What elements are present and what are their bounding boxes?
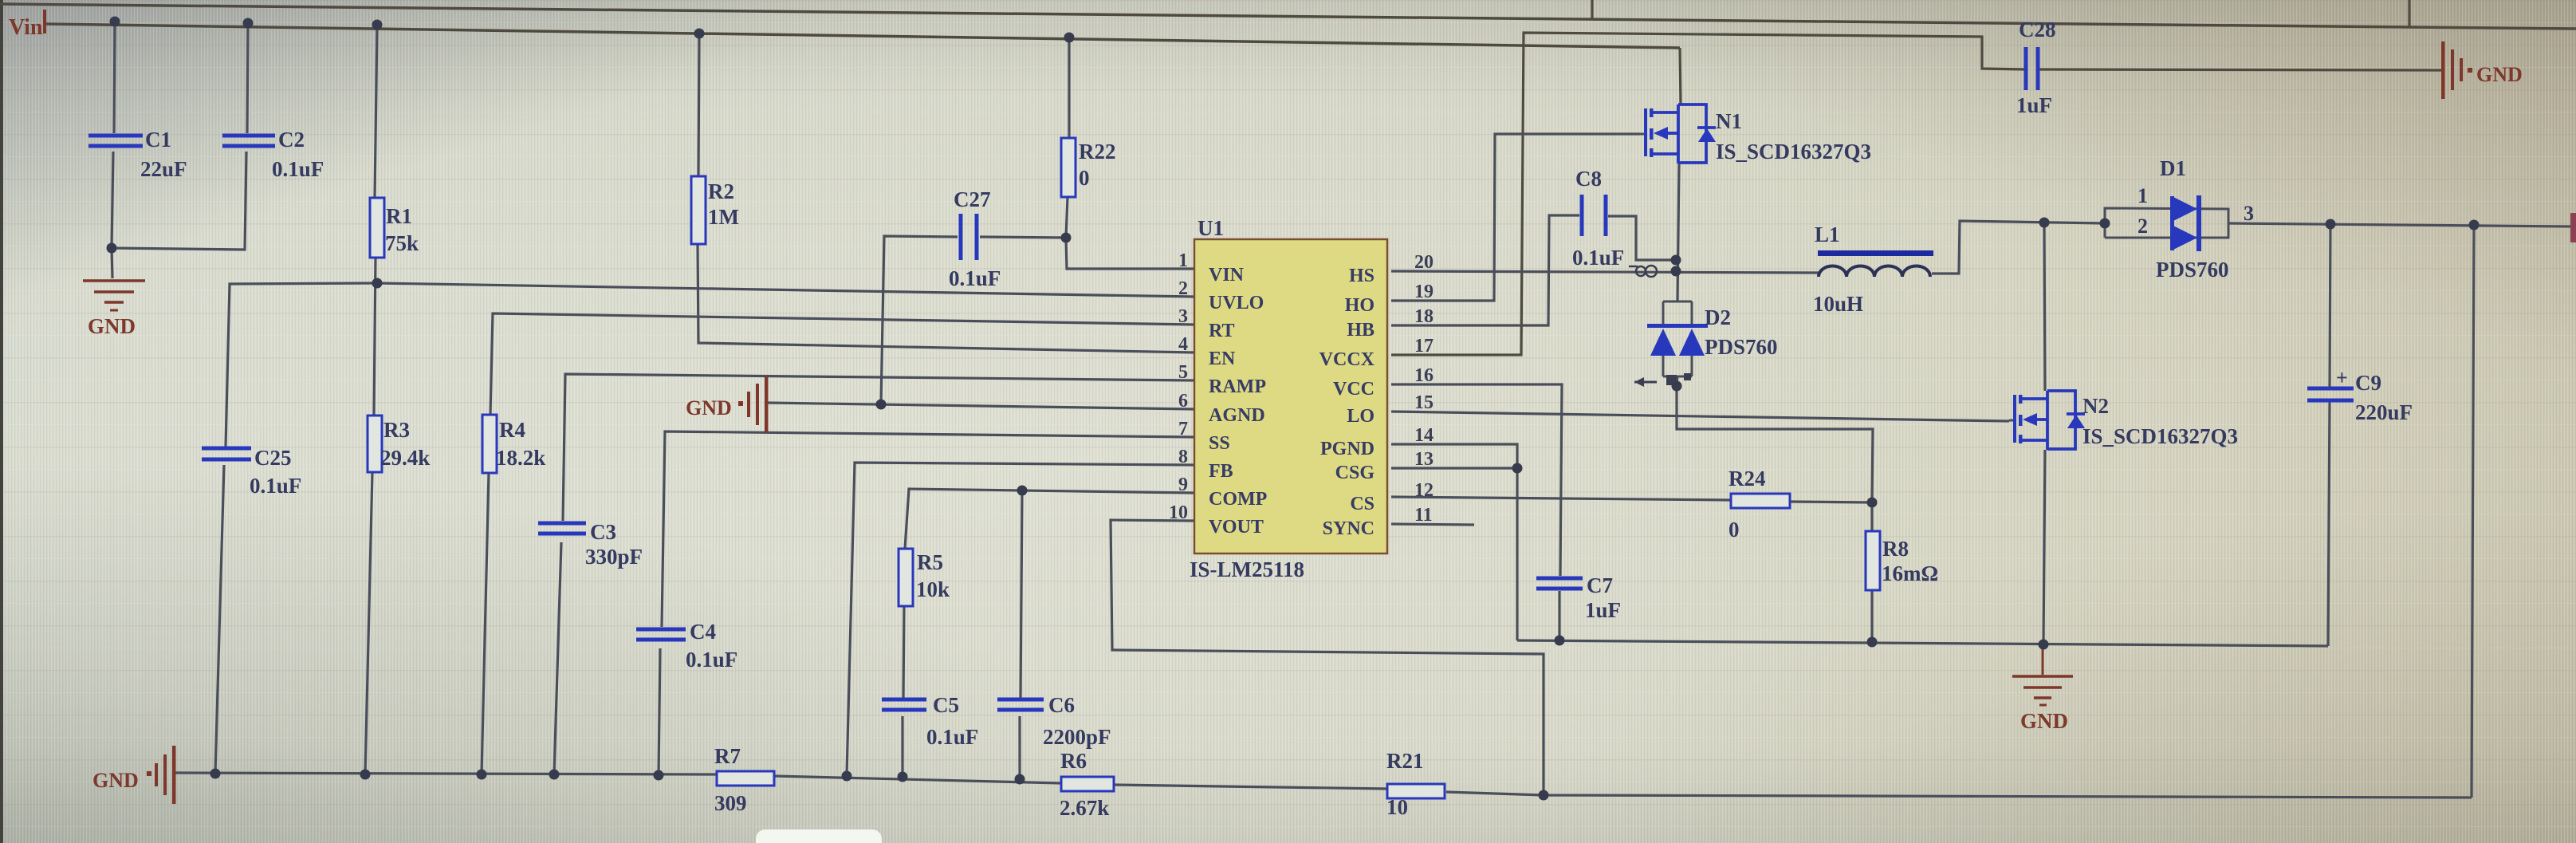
power port GND top-right [2441, 41, 2445, 99]
svg-text:1: 1 [1178, 250, 1188, 271]
svg-text:D1: D1 [2160, 156, 2186, 180]
svg-text:R8: R8 [1882, 537, 1909, 561]
wire C2 bottom to C1 [112, 152, 246, 250]
svg-text:220uF: 220uF [2355, 400, 2413, 424]
wire R22 bottom lead [1066, 197, 1068, 238]
wire PGND rail [1517, 640, 2328, 646]
wire sense node to R8 [1870, 502, 1873, 531]
resistor R6 [1061, 777, 1114, 791]
junction Vin-C2 [243, 18, 254, 29]
svg-text:2200pF: 2200pF [1043, 725, 1111, 749]
junction HS-C8 [1671, 255, 1681, 266]
capacitor C3 [538, 522, 586, 526]
wire C2 top lead [247, 22, 248, 133]
wire EN row to R2 [698, 244, 1194, 353]
node glyph at D2 anode [1634, 381, 1657, 384]
svg-text:13: 13 [1414, 449, 1434, 470]
svg-text:330pF: 330pF [585, 545, 643, 569]
svg-text:FB: FB [1209, 461, 1233, 482]
svg-text:1M: 1M [708, 205, 739, 229]
wire R6 to R7 net [774, 776, 1061, 783]
wire PGND pin down [1391, 444, 1517, 640]
svg-text:GND: GND [92, 769, 139, 792]
wire FB row [847, 463, 1194, 775]
wire C9 column top [2330, 224, 2330, 388]
svg-text:5: 5 [1178, 362, 1188, 383]
transistor Q N1 [1640, 133, 1644, 136]
resistor R5 [899, 549, 913, 606]
ground GND bottom-right earth [2042, 644, 2044, 675]
junction COMP-C6 [1017, 486, 1028, 496]
svg-text:75k: 75k [385, 231, 419, 255]
resistor R2 [691, 176, 706, 244]
svg-text:10uH: 10uH [1813, 292, 1863, 316]
junction VOUT-R21 [1539, 790, 1549, 801]
svg-text:R7: R7 [714, 744, 741, 768]
capacitor C2 [222, 134, 275, 138]
capacitor C28 [2024, 47, 2028, 90]
svg-text:22uF: 22uF [140, 157, 187, 181]
svg-text:COMP: COMP [1209, 489, 1267, 510]
wire VCCX to C28 (line B) [1391, 33, 2025, 355]
svg-text:R5: R5 [917, 550, 943, 574]
resistor R8 [1866, 531, 1880, 590]
wire pin1 VIN [1066, 238, 1194, 269]
wire C5 bottom [901, 716, 903, 777]
svg-text:C7: C7 [1587, 573, 1613, 597]
resistor R24 [1731, 494, 1790, 508]
svg-text:N2: N2 [2082, 394, 2109, 418]
wire R24 to sense node [1790, 502, 1872, 502]
diode D2 PDS760 [1663, 301, 1692, 303]
wire R1 to R3 [374, 258, 376, 416]
svg-text:2: 2 [1178, 278, 1188, 299]
wire COMP row to R5 [905, 489, 1194, 549]
junction C1-C2-GND [107, 243, 117, 254]
svg-text:1uF: 1uF [1585, 598, 1621, 622]
svg-text:D2: D2 [1705, 305, 1731, 329]
svg-text:0.1uF: 0.1uF [250, 474, 301, 498]
wire C6 bottom [1018, 716, 1021, 779]
svg-text:GND: GND [88, 314, 136, 338]
wire C8 to HS node [1608, 216, 1677, 260]
capacitor C5 [882, 698, 926, 702]
junction CSG-PGND [1512, 463, 1523, 474]
svg-text:RAMP: RAMP [1209, 376, 1266, 397]
wire CS to R24 [1391, 497, 1731, 500]
svg-text:10k: 10k [916, 577, 950, 601]
svg-text:VCCX: VCCX [1319, 349, 1375, 370]
svg-text:HO: HO [1345, 295, 1375, 316]
svg-text:19: 19 [1414, 282, 1434, 302]
capacitor C7 [1536, 577, 1583, 581]
svg-text:PDS760: PDS760 [1705, 335, 1778, 359]
capacitor C1 [88, 134, 143, 138]
svg-text:3: 3 [1178, 306, 1188, 327]
wire CSG [1391, 467, 1517, 469]
wire R22 top lead [1068, 37, 1070, 138]
junction AGND-C25 [210, 769, 221, 779]
svg-text:C27: C27 [954, 187, 991, 211]
svg-text:2: 2 [2137, 215, 2148, 238]
svg-text:29.4k: 29.4k [380, 446, 430, 470]
wire C4 bottom [659, 648, 660, 775]
resistor R7 [717, 771, 774, 786]
wire AGND row [768, 403, 1194, 409]
wire LO to N2 gate [1391, 412, 2009, 421]
wire stub top edge A [1591, 0, 1593, 20]
wire R1 top lead [375, 25, 377, 198]
svg-text:R22: R22 [1079, 140, 1116, 163]
wire D2 anode to sense node [1677, 386, 1873, 502]
svg-text:0.1uF: 0.1uF [949, 266, 1001, 290]
svg-text:GND: GND [686, 396, 732, 420]
svg-text:U1: U1 [1198, 216, 1224, 240]
svg-text:IS_SCD16327Q3: IS_SCD16327Q3 [2082, 424, 2238, 448]
svg-text:16: 16 [1414, 365, 1434, 386]
wire UVLO row [377, 283, 1194, 297]
svg-text:GND: GND [2476, 63, 2523, 86]
svg-text:LO: LO [1347, 406, 1375, 427]
junction FB-C6 [1015, 774, 1025, 785]
svg-text:C6: C6 [1048, 693, 1075, 717]
junction CS-R24-R8 [1867, 498, 1878, 508]
svg-text:0.1uF: 0.1uF [1572, 246, 1624, 270]
svg-text:C5: C5 [933, 693, 959, 717]
wire C1 top lead [114, 22, 115, 133]
wire Vin rail [45, 24, 1680, 48]
svg-text:20: 20 [1414, 252, 1434, 273]
svg-text:R21: R21 [1386, 749, 1424, 773]
wire C6 column [1021, 490, 1022, 698]
wire SS row to C4 [662, 431, 1194, 627]
svg-text:17: 17 [1414, 336, 1434, 357]
wire VCC to C7 [1391, 384, 1562, 576]
junction output-N2 drain [2039, 218, 2050, 228]
svg-text:10: 10 [1386, 795, 1408, 819]
wire output to feedback drop [2472, 225, 2474, 798]
wire output rail [2228, 223, 2570, 227]
svg-text:6: 6 [1178, 391, 1188, 412]
junction UVLO-R1-R3 [372, 278, 383, 289]
junction AGND-C27 [876, 400, 887, 410]
wire VOUT sense [1111, 520, 1544, 795]
junction D2 anode node [1672, 381, 1682, 392]
junction Vin-R22 [1064, 33, 1075, 43]
svg-text:R1: R1 [386, 204, 412, 228]
svg-text:18: 18 [1414, 306, 1434, 327]
junction PGND-C7 [1555, 636, 1565, 646]
svg-text:VOUT: VOUT [1209, 517, 1264, 538]
svg-text:0.1uF: 0.1uF [926, 725, 978, 749]
junction FB-net [842, 771, 852, 782]
svg-text:UVLO: UVLO [1209, 293, 1264, 313]
wire C27 to pin1 node [980, 237, 1066, 238]
svg-text:C1: C1 [145, 128, 171, 152]
decorative white blob [756, 829, 882, 843]
svg-text:15: 15 [1414, 392, 1434, 413]
capacitor C4 [636, 628, 686, 632]
wire N2 source [2043, 450, 2045, 644]
transistor Q N2 [2009, 420, 2013, 422]
wire top rail [0, 4, 2576, 29]
wire N2 drain [2044, 223, 2045, 391]
wire L1 to output node [1932, 221, 2105, 274]
svg-text:R2: R2 [708, 179, 734, 203]
wire C3 bottom [554, 542, 561, 774]
wire earth stem [112, 248, 112, 278]
svg-text:309: 309 [714, 791, 747, 815]
svg-text:C9: C9 [2355, 371, 2381, 395]
power port output right edge [2570, 213, 2576, 242]
svg-text:C4: C4 [690, 620, 716, 644]
junction output-feedback [2469, 220, 2480, 230]
ground GND left earth [83, 279, 145, 282]
wire AGND rail [175, 773, 717, 774]
wire HO to N1 gate [1391, 134, 1640, 301]
resistor R21 [1387, 784, 1445, 798]
junction AGND-C4 [654, 770, 664, 781]
junction Vin-R1 [372, 20, 383, 30]
svg-text:3: 3 [2244, 202, 2254, 225]
svg-text:C28: C28 [2019, 18, 2056, 41]
svg-text:AGND: AGND [1209, 405, 1265, 426]
resistor R1 [370, 198, 384, 258]
svg-text:1uF: 1uF [2016, 93, 2052, 117]
svg-text:0.1uF: 0.1uF [272, 157, 324, 181]
junction HS-L1 [1671, 266, 1681, 277]
svg-text:R24: R24 [1728, 467, 1766, 490]
svg-text:L1: L1 [1815, 223, 1840, 246]
junction AGND-R4 [477, 770, 487, 780]
svg-text:C3: C3 [590, 520, 616, 544]
wire C27 to AGND [881, 236, 958, 404]
wire C1 bottom lead [112, 152, 113, 248]
resistor R3 [368, 416, 382, 472]
wire C9 column bottom [2328, 400, 2330, 646]
junction output-D1 [2100, 219, 2110, 229]
svg-text:VCC: VCC [1333, 379, 1375, 400]
junction PGND-N2 [2039, 640, 2049, 650]
wire R8 to PGND rail [1870, 590, 1873, 642]
svg-text:EN: EN [1209, 349, 1236, 369]
wire SYNC stub [1391, 524, 1474, 525]
capacitor C25 [202, 447, 251, 451]
wire RT row to R4 [490, 313, 1194, 415]
capacitor C8 [1580, 195, 1584, 236]
wire C7 to PGND rail [1558, 591, 1560, 640]
svg-text:8: 8 [1178, 447, 1188, 467]
svg-text:R3: R3 [383, 418, 410, 442]
wire R3 bottom [365, 472, 372, 774]
svg-text:0: 0 [1728, 518, 1740, 542]
svg-text:SS: SS [1209, 433, 1230, 454]
wire HS row to L1 [1391, 271, 1819, 273]
inductor L1 [1818, 250, 1933, 256]
wire stub top edge B [2408, 0, 2410, 27]
junction output-C9 [2326, 219, 2336, 230]
svg-text:SYNC: SYNC [1323, 518, 1375, 539]
svg-text:Vin: Vin [9, 15, 43, 40]
svg-text:GND: GND [2020, 709, 2068, 733]
resistor R4 [482, 415, 497, 473]
diode D1 PDS760 [2105, 208, 2228, 238]
wire HB to C8 [1391, 215, 1579, 325]
wire UVLO to C25 [226, 283, 377, 447]
capacitor C27 [959, 214, 963, 260]
wire R4 bottom [482, 473, 489, 774]
svg-text:C8: C8 [1575, 167, 1602, 191]
svg-text:VIN: VIN [1209, 265, 1245, 286]
svg-text:HB: HB [1347, 320, 1375, 341]
svg-text:1: 1 [2137, 184, 2148, 207]
svg-text:PGND: PGND [1320, 439, 1375, 459]
wire feedback bottom [1446, 792, 2472, 798]
junction Vin-C1 [110, 17, 120, 27]
svg-text:9: 9 [1178, 475, 1188, 495]
svg-text:C2: C2 [278, 128, 305, 152]
svg-text:2.67k: 2.67k [1060, 796, 1109, 820]
wire HS switch-node vertical [1677, 163, 1679, 301]
wire R21 to R6 [1114, 785, 1387, 789]
svg-text:16mΩ: 16mΩ [1882, 561, 1938, 585]
svg-text:HS: HS [1349, 266, 1375, 286]
wire RAMP row to C3 [563, 374, 1194, 521]
wire R5 to C5 [903, 606, 904, 698]
wire N1 drain drop [1680, 48, 1681, 104]
junction Vin-R2 [694, 29, 705, 39]
svg-text:RT: RT [1209, 321, 1235, 341]
svg-text:11: 11 [1414, 505, 1433, 526]
junction AGND-R3 [360, 770, 371, 780]
svg-text:IS-LM25118: IS-LM25118 [1190, 557, 1304, 581]
svg-text:12: 12 [1414, 480, 1434, 501]
junction AGND-C3 [549, 770, 560, 780]
capacitor C6 [997, 698, 1044, 702]
svg-text:R4: R4 [499, 418, 525, 442]
svg-text:7: 7 [1178, 419, 1188, 439]
junction node VIN pin1 [1061, 233, 1072, 243]
svg-text:R6: R6 [1060, 749, 1087, 773]
svg-text:14: 14 [1414, 425, 1434, 446]
svg-text:10: 10 [1169, 502, 1188, 523]
svg-text:N1: N1 [1716, 109, 1742, 133]
svg-text:CS: CS [1350, 494, 1375, 514]
op-amp U1 IS-LM25118 controller [1194, 239, 1387, 553]
svg-text:PDS760: PDS760 [2156, 258, 2229, 282]
capacitor C9 [2307, 387, 2354, 391]
resistor R22 [1061, 138, 1076, 197]
svg-text:0: 0 [1079, 166, 1090, 190]
svg-text:C25: C25 [254, 446, 292, 470]
svg-text:4: 4 [1178, 334, 1188, 355]
node glyph at switch node [1636, 266, 1646, 276]
svg-text:0.1uF: 0.1uF [686, 648, 737, 672]
svg-text:IS_SCD16327Q3: IS_SCD16327Q3 [1716, 140, 1871, 163]
junction FB-C5 [898, 772, 908, 782]
svg-text:+: + [2336, 366, 2348, 389]
wire C28 to GND port [2039, 69, 2443, 70]
wire R2 top lead [698, 33, 699, 176]
wire C25 bottom [215, 465, 224, 774]
junction PGND-R8 [1867, 637, 1878, 648]
svg-text:CSG: CSG [1335, 463, 1375, 483]
svg-text:18.2k: 18.2k [496, 446, 545, 470]
